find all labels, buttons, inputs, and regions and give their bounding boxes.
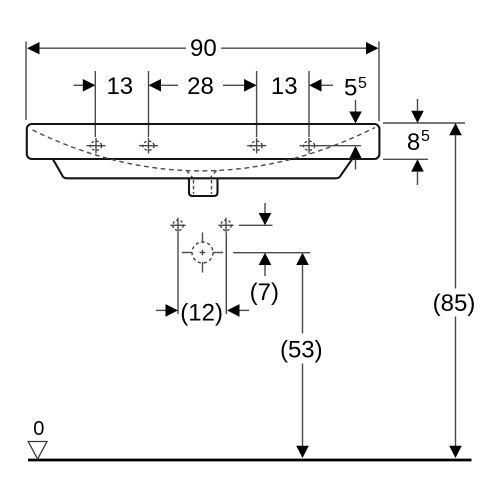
svg-text:(12): (12) [180,299,223,326]
svg-text:90: 90 [190,35,217,62]
svg-text:28: 28 [187,73,214,100]
svg-text:5: 5 [344,75,357,102]
svg-text:0: 0 [33,418,44,440]
svg-text:13: 13 [106,73,133,100]
svg-text:13: 13 [271,73,298,100]
svg-text:(85): (85) [433,290,476,317]
svg-text:5: 5 [358,75,367,92]
svg-text:5: 5 [421,128,430,145]
svg-text:8: 8 [407,129,420,156]
svg-text:(53): (53) [280,336,323,363]
svg-text:(7): (7) [250,279,279,306]
